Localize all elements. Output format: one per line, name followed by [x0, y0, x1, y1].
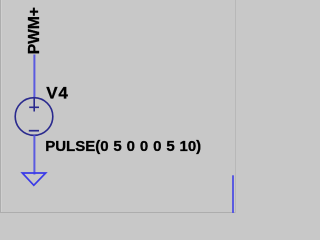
- V4 plus terminal stub: [33, 98, 35, 112]
- svg-text:10): 10): [180, 138, 202, 155]
- window bevel left edge: [0, 0, 1, 213]
- svg-text:0 5 0 0 0 5: 0 5 0 0 0 5: [100, 138, 175, 155]
- V4 plus sign crossbar: [29, 106, 39, 108]
- svg-text:V4: V4: [46, 84, 68, 103]
- V4 minus sign: [29, 130, 39, 132]
- wire (V4 minus terminal to ground): [33, 135, 35, 174]
- wire (top, net PWM+ to V4 plus terminal): [33, 55, 35, 99]
- window bevel left highlight: [1, 0, 2, 213]
- svg-text:PWM+: PWM+: [26, 7, 43, 54]
- voltage source V4 circle: [15, 98, 53, 136]
- ground symbol: [22, 173, 45, 185]
- window bevel right edge: [235, 0, 236, 213]
- svg-text:PULSE(: PULSE(: [45, 138, 100, 155]
- window bevel bottom edge: [0, 212, 236, 213]
- wire (right edge, partially visible): [232, 175, 234, 213]
- schematic background: [0, 0, 236, 213]
